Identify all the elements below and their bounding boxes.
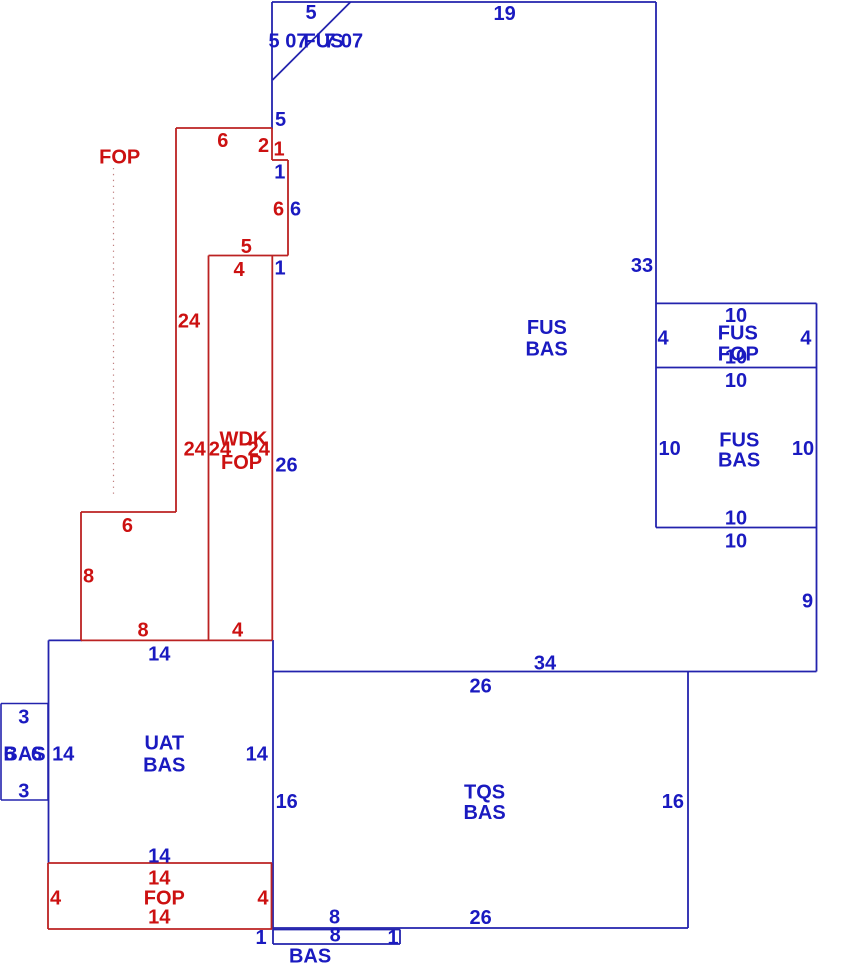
- svg-text:7 07: 7 07: [324, 31, 363, 53]
- svg-text:6: 6: [122, 515, 133, 537]
- svg-text:1: 1: [388, 927, 399, 949]
- svg-text:14: 14: [148, 867, 171, 889]
- svg-text:6: 6: [273, 199, 284, 221]
- svg-text:WDK: WDK: [220, 428, 268, 450]
- svg-text:4: 4: [233, 259, 245, 281]
- svg-text:FUS: FUS: [718, 322, 758, 344]
- svg-text:BAS: BAS: [143, 755, 185, 777]
- svg-text:2: 2: [258, 135, 269, 157]
- svg-text:1: 1: [256, 927, 267, 949]
- svg-text:BAS: BAS: [525, 339, 567, 361]
- svg-text:4: 4: [800, 327, 812, 349]
- svg-text:FOP: FOP: [221, 452, 262, 474]
- svg-text:24: 24: [184, 439, 207, 461]
- svg-text:10: 10: [725, 370, 747, 392]
- svg-text:BAS: BAS: [718, 450, 760, 472]
- svg-text:9: 9: [802, 590, 813, 612]
- svg-text:FUS: FUS: [719, 430, 759, 452]
- svg-text:3: 3: [18, 706, 29, 728]
- svg-text:3: 3: [18, 781, 29, 803]
- svg-text:4: 4: [50, 888, 62, 910]
- svg-text:8: 8: [137, 620, 148, 642]
- svg-text:26: 26: [275, 455, 297, 477]
- svg-text:33: 33: [631, 255, 653, 277]
- svg-text:19: 19: [493, 3, 515, 25]
- svg-text:5: 5: [275, 109, 286, 131]
- svg-text:4: 4: [257, 888, 269, 910]
- svg-text:14: 14: [148, 846, 171, 868]
- svg-text:16: 16: [662, 791, 684, 813]
- svg-text:1: 1: [274, 162, 285, 184]
- svg-text:4: 4: [657, 327, 669, 349]
- svg-text:FOP: FOP: [99, 147, 140, 169]
- svg-text:5: 5: [241, 236, 252, 258]
- svg-text:10: 10: [725, 530, 747, 552]
- svg-text:26: 26: [469, 907, 491, 929]
- svg-text:BAS: BAS: [289, 946, 331, 968]
- svg-text:8: 8: [83, 566, 94, 588]
- svg-text:5: 5: [306, 2, 317, 24]
- svg-text:14: 14: [52, 744, 75, 766]
- svg-text:34: 34: [534, 653, 557, 675]
- svg-text:26: 26: [469, 676, 491, 698]
- svg-text:14: 14: [246, 744, 269, 766]
- svg-text:TQS: TQS: [464, 781, 505, 803]
- svg-text:10: 10: [725, 347, 747, 369]
- svg-text:6: 6: [31, 744, 42, 766]
- svg-text:10: 10: [792, 438, 814, 460]
- svg-text:FUS: FUS: [527, 317, 567, 339]
- svg-text:5 07: 5 07: [269, 31, 308, 53]
- svg-text:16: 16: [276, 791, 298, 813]
- svg-text:8: 8: [330, 925, 341, 947]
- svg-text:1: 1: [273, 139, 284, 161]
- svg-text:10: 10: [658, 438, 680, 460]
- svg-text:4: 4: [232, 620, 244, 642]
- svg-text:6: 6: [290, 199, 301, 221]
- svg-text:6: 6: [217, 130, 228, 152]
- svg-text:UAT: UAT: [144, 733, 184, 755]
- svg-text:1: 1: [274, 258, 285, 280]
- svg-text:24: 24: [178, 311, 201, 333]
- svg-text:14: 14: [148, 644, 171, 666]
- svg-text:BAS: BAS: [463, 802, 505, 824]
- svg-text:10: 10: [725, 507, 747, 529]
- svg-text:14: 14: [148, 906, 171, 928]
